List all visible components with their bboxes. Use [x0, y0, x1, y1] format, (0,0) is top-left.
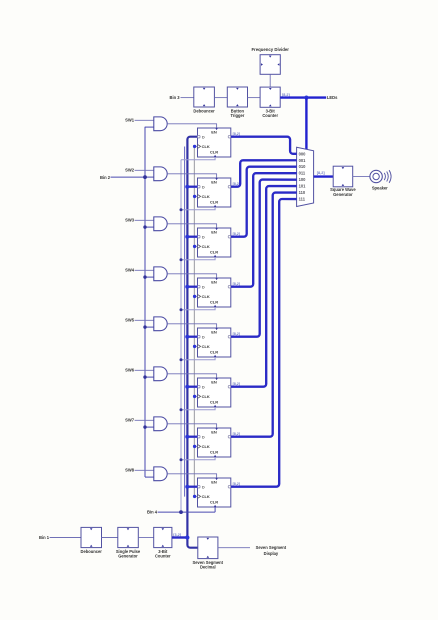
- svg-text:Decimal: Decimal: [200, 565, 216, 570]
- AND gate G2: [154, 167, 167, 181]
- wire CLK stub FF3: [194, 245, 197, 247]
- FF2 pin labels: [198, 178, 231, 207]
- bus U4 to LEDs: [280, 96, 326, 98]
- svg-text:D: D: [202, 235, 205, 239]
- single pulse generator U7: [118, 527, 139, 547]
- svg-text:110: 110: [299, 190, 306, 195]
- svg-text:CLR: CLR: [210, 450, 218, 455]
- label Single Pulse Generator: [116, 549, 141, 559]
- bus FF3 Q to MUX input: [231, 167, 297, 237]
- svg-text:CLK: CLK: [202, 494, 210, 499]
- junction Bin2/G6: [143, 375, 146, 378]
- junction CLK FF6: [193, 395, 196, 398]
- D flip-flop FF5: [198, 328, 231, 357]
- svg-text:EN: EN: [211, 329, 217, 334]
- wire Bin2 riser stub to G2: [145, 176, 154, 178]
- svg-text:EN: EN: [211, 229, 217, 234]
- wire G8 output to FF8 EN: [167, 474, 216, 478]
- AND gate G7: [154, 417, 167, 431]
- junction CLR FF7: [180, 458, 183, 461]
- svg-text:SW1: SW1: [125, 118, 135, 123]
- 3-bit counter U4: [260, 87, 280, 107]
- bus D riser stub to FF6 D: [187, 386, 197, 388]
- svg-text:CLK: CLK: [202, 144, 210, 149]
- wire FF7 CLR to riser: [181, 457, 215, 460]
- bus FF2 Q to MUX input: [231, 160, 297, 186]
- wire G7 output to FF7 EN: [167, 424, 216, 428]
- svg-text:CLK: CLK: [202, 394, 210, 399]
- wire FF4 CLR to riser: [181, 307, 215, 310]
- wire Bin2 riser stub to G1: [145, 126, 154, 128]
- wire Bin2 to riser: [111, 176, 146, 178]
- label Seven Segment Decimal: [193, 560, 224, 570]
- bus D riser stub to FF4 D: [187, 286, 197, 288]
- wire SW5 to gate G5: [135, 319, 154, 321]
- bus FF5 Q to MUX input: [231, 180, 297, 337]
- FF3 pin labels: [198, 228, 231, 257]
- svg-text:CLR: CLR: [210, 200, 218, 205]
- junction CLR FF6: [180, 408, 183, 411]
- svg-text:SW6: SW6: [125, 368, 135, 373]
- junction D bus FF8: [185, 485, 189, 489]
- junction CLK FF4: [193, 295, 196, 298]
- svg-text:D: D: [202, 335, 205, 339]
- debouncer U6: [81, 527, 102, 547]
- svg-text:101: 101: [299, 184, 307, 189]
- svg-text:EN: EN: [211, 279, 217, 284]
- wire FF6 CLR to riser: [181, 407, 215, 410]
- junction CLK FF8: [193, 495, 196, 498]
- wire SW7 to gate G7: [135, 419, 154, 421]
- label 3-Bit Counter (bottom): [155, 549, 171, 559]
- svg-text:CLR: CLR: [210, 400, 218, 405]
- wire CLK stub FF2: [194, 195, 197, 197]
- svg-text:Debouncer: Debouncer: [81, 549, 103, 554]
- svg-text:SW2: SW2: [125, 168, 135, 173]
- wire FF2 CLR to riser: [181, 207, 215, 210]
- wire Bin2 riser stub to G4: [145, 276, 154, 278]
- svg-text:010: 010: [299, 164, 307, 169]
- bus D riser stub to FF2 D: [187, 186, 197, 188]
- square wave generator U5: [333, 166, 353, 187]
- wire FF5 CLR to riser: [181, 357, 215, 360]
- D flip-flop FF8: [198, 478, 231, 507]
- bus FF1 Q to MUX input: [231, 137, 297, 154]
- wire SW3 to gate G3: [135, 219, 154, 221]
- svg-text:CLK: CLK: [202, 294, 210, 299]
- wire CLK stub FF8: [194, 495, 197, 497]
- svg-text:SW8: SW8: [125, 468, 135, 473]
- wire CLK riser (gray): [193, 147, 195, 497]
- wire SW2 to gate G2: [135, 169, 154, 171]
- bus MUX output to square wave generator: [314, 175, 334, 177]
- AND gate G6: [154, 367, 167, 381]
- svg-text:EN: EN: [211, 129, 217, 134]
- label Button Trigger: [230, 108, 244, 118]
- svg-text:CLR: CLR: [210, 300, 218, 305]
- svg-text:EN: EN: [211, 479, 217, 484]
- wire G6 output to FF6 EN: [167, 374, 216, 378]
- D flip-flop FF7: [198, 428, 231, 457]
- bus FF8 Q to MUX input: [231, 199, 297, 487]
- svg-text:Speaker: Speaker: [372, 185, 388, 190]
- bus D riser stub to FF3 D: [187, 236, 197, 238]
- FF6 pin labels: [198, 378, 231, 407]
- svg-text:D: D: [202, 135, 205, 139]
- svg-text:Counter: Counter: [262, 113, 278, 118]
- wire Bin1 to debouncer U6: [50, 537, 81, 539]
- svg-text:[8,2]: [8,2]: [233, 382, 240, 386]
- svg-text:Display: Display: [264, 551, 279, 556]
- wire G1 output to FF1 EN: [167, 124, 216, 128]
- wire CLK stub FF5: [194, 345, 197, 347]
- bus D riser stub to FF8 D: [187, 486, 197, 488]
- junction D bus FF4: [185, 285, 189, 289]
- label 3-Bit Counter: [262, 108, 278, 118]
- wire G4 output to FF4 EN: [167, 274, 216, 278]
- junction Bin2/G4: [143, 275, 146, 278]
- wire Bin4 to FF8 CLR: [158, 507, 216, 512]
- junction CLR FF3: [180, 258, 183, 261]
- label Square Wave Generator: [330, 187, 356, 197]
- AND gate G4: [154, 267, 167, 281]
- svg-text:D: D: [202, 185, 205, 189]
- svg-text:Bin 2: Bin 2: [100, 175, 111, 180]
- button trigger U3: [227, 87, 247, 107]
- AND gate G8: [154, 467, 167, 481]
- junction D bus FF6: [185, 385, 189, 389]
- wire U5 to speaker: [353, 176, 370, 178]
- wire Bin2 riser stub to G7: [145, 426, 154, 428]
- svg-text:Bin 4: Bin 4: [147, 510, 158, 515]
- svg-text:Generator: Generator: [118, 554, 138, 559]
- junction Bin4/CLR riser: [179, 510, 183, 514]
- wire G2 output to FF2 EN: [167, 174, 216, 178]
- svg-text:Bin 1: Bin 1: [39, 535, 50, 540]
- svg-text:D: D: [202, 435, 205, 439]
- wire U9 to display label: [218, 547, 250, 549]
- svg-text:D: D: [202, 485, 205, 489]
- svg-text:SW4: SW4: [125, 268, 135, 273]
- junction Bin2/G5: [143, 325, 146, 328]
- AND gate G5: [154, 317, 167, 331]
- junction CLK FF7: [193, 445, 196, 448]
- FF5 pin labels: [198, 328, 231, 357]
- multiplexer M1: [297, 147, 314, 206]
- FF1 pin labels: [198, 128, 231, 157]
- wire G5 output to FF5 EN: [167, 324, 216, 328]
- wire FF3 CLR to riser: [181, 257, 215, 260]
- 3-bit counter U8: [154, 527, 172, 547]
- junction counter/D riser: [185, 535, 189, 539]
- junction CLR FF5: [180, 358, 183, 361]
- svg-text:SW5: SW5: [125, 318, 135, 323]
- svg-text:Frequency Divider: Frequency Divider: [251, 47, 289, 52]
- svg-text:Seven Segment: Seven Segment: [256, 545, 287, 550]
- junction D bus FF7: [185, 435, 189, 439]
- svg-text:LEDs: LEDs: [327, 95, 338, 100]
- wire mid navy vertical: [184, 147, 186, 497]
- FF7 pin labels: [198, 428, 231, 457]
- junction D bus FF3: [185, 235, 189, 239]
- junction CLK FF2: [193, 195, 196, 198]
- junction Bin2/G2: [143, 175, 146, 178]
- junction Bin2 entry: [143, 175, 147, 179]
- svg-text:100: 100: [299, 177, 307, 182]
- svg-text:D: D: [202, 385, 205, 389]
- svg-text:EN: EN: [211, 179, 217, 184]
- bus U8 output to D riser: [172, 536, 187, 538]
- D flip-flop FF6: [198, 378, 231, 407]
- wire SW8 to gate G8: [135, 469, 154, 471]
- bus FF6 Q to MUX input: [231, 186, 297, 387]
- svg-text:D: D: [202, 285, 205, 289]
- wire Bin2 riser stub to G5: [145, 326, 154, 328]
- mux input labels 000-111: [299, 151, 307, 201]
- bus D riser stub to FF7 D: [187, 436, 197, 438]
- svg-text:[8,2]: [8,2]: [233, 432, 240, 436]
- wire CLK stub FF7: [194, 445, 197, 447]
- junction CLR FF2: [180, 208, 183, 211]
- junction Bin2/G7: [143, 425, 146, 428]
- svg-text:Debouncer: Debouncer: [193, 108, 215, 113]
- svg-text:Trigger: Trigger: [230, 113, 244, 118]
- svg-text:[8,2]: [8,2]: [233, 282, 240, 286]
- junction CLK FF1: [193, 145, 196, 148]
- svg-text:011: 011: [299, 171, 306, 176]
- svg-text:Bin 3: Bin 3: [169, 95, 180, 100]
- svg-text:[8,2]: [8,2]: [317, 171, 326, 175]
- svg-text:SW7: SW7: [125, 418, 135, 423]
- wire Bin2 riser: [144, 127, 146, 477]
- svg-text:CLK: CLK: [202, 194, 210, 199]
- svg-text:CLR: CLR: [210, 150, 218, 155]
- svg-text:000: 000: [299, 151, 307, 156]
- svg-text:CLR: CLR: [210, 250, 218, 255]
- svg-text:[8,2]: [8,2]: [282, 93, 291, 97]
- wire Bin2 riser stub to G8: [145, 476, 154, 478]
- frequency divider U1: [260, 55, 280, 75]
- junction D bus FF5: [185, 335, 189, 339]
- svg-text:Counter: Counter: [155, 554, 171, 559]
- wire SW6 to gate G6: [135, 369, 154, 371]
- wire Bin2 riser stub to G3: [145, 226, 154, 228]
- FF4 pin labels: [198, 278, 231, 307]
- node Seven Segment Display: [256, 545, 287, 556]
- svg-text:EN: EN: [211, 379, 217, 384]
- speaker SP1: [370, 170, 391, 183]
- wire U2 to U3: [214, 97, 227, 99]
- FF8 pin labels: [198, 478, 231, 507]
- bus FF4 Q to MUX input: [231, 173, 297, 287]
- svg-text:CLK: CLK: [202, 244, 210, 249]
- wire CLK stub FF1: [194, 145, 197, 147]
- wire CLK stub FF4: [194, 295, 197, 297]
- svg-text:[8,2]: [8,2]: [233, 132, 240, 136]
- wire SW4 to gate G4: [135, 269, 154, 271]
- bus D riser: [187, 137, 197, 548]
- svg-text:[8,2]: [8,2]: [233, 332, 240, 336]
- svg-text:SW3: SW3: [125, 218, 135, 223]
- svg-text:111: 111: [299, 197, 306, 202]
- wire CLK stub FF6: [194, 395, 197, 397]
- wire Bin3 to debouncer: [181, 97, 194, 99]
- junction Bin2/G3: [143, 225, 146, 228]
- bus FF7 Q to MUX input: [231, 193, 297, 437]
- D flip-flop FF1: [198, 128, 231, 157]
- D flip-flop FF4: [198, 278, 231, 307]
- D flip-flop FF3: [198, 228, 231, 257]
- wire G3 output to FF3 EN: [167, 224, 216, 228]
- wire U3 to U4: [248, 97, 261, 99]
- junction D bus FF2: [185, 185, 189, 189]
- junction CLK FF5: [193, 345, 196, 348]
- svg-text:CLK: CLK: [202, 444, 210, 449]
- svg-text:CLK: CLK: [202, 344, 210, 349]
- svg-text:EN: EN: [211, 429, 217, 434]
- svg-text:CLR: CLR: [210, 350, 218, 355]
- svg-text:[8,2]: [8,2]: [233, 232, 240, 236]
- wire U1 to counter U4: [269, 75, 271, 88]
- wire U6 to U7: [102, 537, 118, 539]
- AND gate G1: [154, 117, 167, 131]
- wire FF1 CLR to riser: [181, 157, 215, 160]
- D flip-flop FF2: [198, 178, 231, 207]
- bus D riser stub to FF5 D: [187, 336, 197, 338]
- wire CLR riser (lavender): [180, 160, 182, 512]
- wire Bin2 riser stub to G6: [145, 376, 154, 378]
- bus select to MUX top: [305, 98, 307, 150]
- junction LED/mux select: [304, 96, 308, 100]
- debouncer U2: [194, 87, 215, 107]
- svg-text:Generator: Generator: [333, 192, 353, 197]
- AND gate G3: [154, 217, 167, 231]
- svg-text:[8,2]: [8,2]: [233, 482, 240, 486]
- svg-text:001: 001: [299, 158, 307, 163]
- svg-text:CLR: CLR: [210, 500, 218, 505]
- junction CLK FF3: [193, 245, 196, 248]
- wire U7 to U8: [138, 537, 153, 539]
- wire SW1 to gate G1: [135, 119, 154, 121]
- seven segment decimal U9: [198, 537, 218, 559]
- junction CLR FF4: [180, 308, 183, 311]
